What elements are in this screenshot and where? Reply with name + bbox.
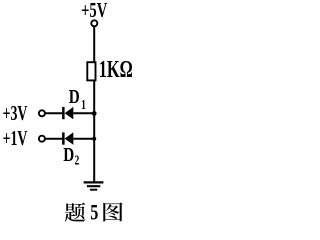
- svg-text:D: D: [63, 143, 74, 166]
- caption 题: [65, 203, 86, 222]
- junction node B (D2 to bus): [92, 137, 96, 141]
- wire: +3V terminal to diode D1: [46, 112, 63, 114]
- svg-text:1KΩ: 1KΩ: [99, 57, 133, 83]
- svg-text:D: D: [69, 85, 80, 108]
- label D2: [63, 143, 79, 168]
- terminal +1V: [39, 136, 45, 142]
- resistor 1KΩ body: [87, 62, 95, 80]
- svg-text:2: 2: [75, 152, 80, 168]
- terminal +3V: [39, 110, 45, 116]
- wire: resistor bottom to ground: [93, 81, 95, 183]
- label D1: [69, 85, 86, 112]
- junction node A (D1 to bus): [92, 111, 97, 116]
- diode D1: [62, 107, 94, 119]
- svg-text:1: 1: [81, 96, 86, 112]
- svg-text:+3V: +3V: [3, 101, 28, 125]
- wire: +5V terminal to resistor R top: [93, 27, 95, 63]
- diode D2: [62, 132, 94, 144]
- ground: [84, 182, 104, 189]
- svg-text:+1V: +1V: [3, 126, 28, 150]
- caption 图: [103, 203, 122, 222]
- terminal +5V: [91, 20, 97, 26]
- svg-text:+5V: +5V: [81, 0, 107, 22]
- svg-text:5: 5: [90, 201, 98, 225]
- wire: +1V terminal to diode D2: [46, 138, 63, 140]
